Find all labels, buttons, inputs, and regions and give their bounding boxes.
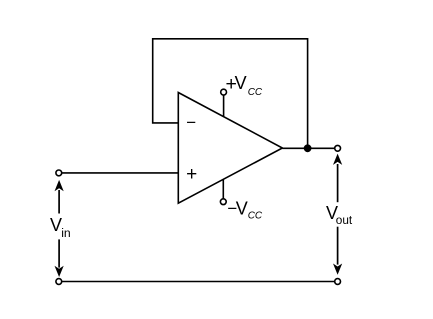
svg-text:out: out [336, 213, 353, 227]
node: output junction [304, 144, 312, 152]
Vin arrow up [55, 180, 64, 214]
wire: -Vcc stub [222, 179, 224, 199]
label Vin [50, 215, 71, 240]
terminal: bottom-right [335, 279, 341, 285]
terminal: +Vcc [221, 89, 227, 95]
wire: bottom rail [62, 281, 334, 283]
terminal: output [335, 145, 341, 151]
terminal: -Vcc [220, 199, 226, 205]
Vout arrow up [333, 154, 342, 203]
svg-text:+: + [186, 164, 197, 185]
svg-text:−: − [186, 113, 196, 132]
svg-text:V: V [235, 73, 247, 93]
svg-text:CC: CC [248, 87, 263, 98]
op-amp [178, 93, 282, 204]
svg-text:V: V [236, 198, 248, 218]
Vin arrow down [55, 239, 64, 277]
wire: feedback loop (from - input up, across top, down to output node) [153, 39, 308, 149]
wire: output [282, 147, 334, 149]
wire: +Vcc stub [223, 95, 225, 117]
label +Vcc [226, 73, 263, 98]
label Vout [326, 203, 353, 227]
wire: non-inverting input [62, 172, 178, 174]
label -Vcc [227, 198, 263, 221]
terminal: bottom-left [56, 279, 62, 285]
terminal: input [56, 170, 62, 176]
svg-text:in: in [61, 226, 70, 240]
Vout arrow down [333, 227, 342, 275]
svg-text:CC: CC [248, 211, 263, 222]
